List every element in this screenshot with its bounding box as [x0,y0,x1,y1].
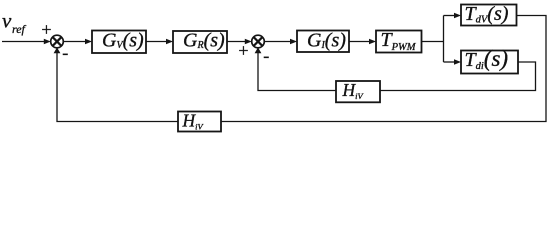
svg-text:-: - [62,43,68,63]
svg-text:+: + [238,41,248,61]
svg-text:-: - [263,45,269,65]
svg-text:GI(s): GI(s) [307,29,346,51]
svg-text:v: v [2,9,12,33]
svg-text:ref: ref [12,22,27,36]
svg-text:GR(s): GR(s) [183,29,225,51]
svg-text:GV(s): GV(s) [102,29,144,51]
svg-text:TdV(s): TdV(s) [465,3,509,26]
svg-text:+: + [41,20,51,40]
svg-text:Tdi(s): Tdi(s) [465,46,509,72]
